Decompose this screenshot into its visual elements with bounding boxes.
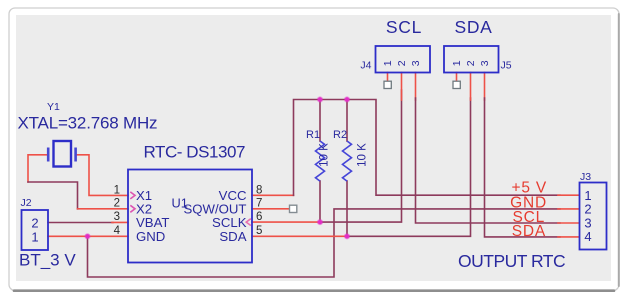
- junction node R2 bottom on SDA: [344, 233, 350, 239]
- bidirectional arrow on SCLK: [246, 219, 251, 226]
- svg-text:J5: J5: [501, 60, 512, 72]
- svg-text:XTAL=32.768 MHz: XTAL=32.768 MHz: [18, 113, 158, 132]
- wire J5 pin1 stub: [456, 73, 458, 82]
- wire pin 7 stub SQW/OUT: [252, 208, 290, 210]
- svg-text:SDA: SDA: [512, 223, 546, 240]
- svg-text:2: 2: [584, 201, 591, 216]
- svg-text:GND: GND: [136, 229, 165, 244]
- wire J5 pin3 stub: [484, 73, 486, 101]
- wire R1 bottom lead: [319, 181, 321, 222]
- crystal right plate: [74, 148, 77, 162]
- svg-text:4: 4: [114, 225, 121, 237]
- svg-text:Y1: Y1: [47, 101, 60, 113]
- wire VBAT net (maroon): [48, 222, 113, 224]
- wire J4 pin3 stub: [415, 73, 417, 101]
- wire pin 3 stub VBAT: [112, 221, 128, 223]
- svg-text:OUTPUT RTC: OUTPUT RTC: [458, 251, 565, 271]
- wire SDA net J5 pin3 to J3 pin4 (maroon): [485, 98, 561, 237]
- wire crystal left plate to X2 (red part): [28, 155, 47, 182]
- input arrow on X2: [130, 205, 135, 212]
- input arrow on X1: [130, 192, 135, 199]
- wire pin 6 stub SCLK: [252, 221, 320, 223]
- svg-text:R2: R2: [333, 129, 347, 141]
- wire J3 pin3 stub SCL: [558, 222, 579, 224]
- svg-text:7: 7: [256, 198, 262, 210]
- crystal X1 body: [54, 141, 72, 167]
- svg-text:J4: J4: [360, 60, 371, 72]
- svg-text:SDA: SDA: [219, 229, 246, 244]
- wire +5V net rail (maroon): [294, 100, 561, 196]
- junction node R2 top on +5V rail: [344, 96, 350, 102]
- junction node R1 bottom on SCL: [317, 219, 323, 225]
- connector J5 body: [444, 46, 499, 73]
- crystal left plate: [47, 148, 50, 162]
- wire J3 pin4 stub SDA: [558, 236, 579, 238]
- wire R2 bottom lead: [346, 181, 348, 236]
- svg-text:BT_3 V: BT_3 V: [19, 251, 76, 270]
- svg-text:SCL: SCL: [386, 17, 422, 37]
- svg-text:1: 1: [382, 60, 394, 66]
- no-connect square on pin 7: [290, 205, 297, 212]
- svg-text:10 K: 10 K: [357, 143, 369, 167]
- wire pin 8 stub VCC: [252, 194, 294, 196]
- wire J3 pin1 stub +5V: [558, 194, 579, 196]
- svg-text:SDA: SDA: [454, 17, 492, 37]
- svg-text:4: 4: [584, 229, 591, 244]
- wire GND loop (maroon): [88, 209, 561, 277]
- svg-text:RTC- DS1307: RTC- DS1307: [144, 143, 246, 162]
- resistor R2: [343, 141, 352, 181]
- svg-text:R1: R1: [306, 129, 320, 141]
- svg-text:3: 3: [584, 215, 591, 230]
- svg-text:6: 6: [256, 211, 262, 223]
- wire crystal left path mid (maroon): [28, 182, 78, 209]
- connector J2 body: [22, 210, 49, 250]
- wire pin 2 stub X2: [78, 208, 129, 210]
- wire SCL net J4 pin3 to J3 pin3 (maroon): [416, 98, 561, 223]
- wire J4 pin1 stub: [387, 73, 389, 82]
- wire pin 5 stub SDA: [252, 235, 347, 237]
- svg-text:2: 2: [396, 60, 408, 66]
- wire crystal right plate to X1: [76, 155, 128, 196]
- wire GND row J2 pin1 to chip pin4: [48, 235, 128, 237]
- wire J3 pin2 stub GND: [558, 208, 579, 210]
- svg-text:SCLK: SCLK: [212, 215, 247, 230]
- op-amp / IC U1 DS1307 body: [128, 170, 252, 263]
- svg-text:8: 8: [256, 184, 262, 196]
- wire SCL net chip to J4 pin2 (maroon): [320, 90, 402, 222]
- svg-text:5: 5: [256, 225, 262, 237]
- svg-text:10 K: 10 K: [319, 143, 331, 167]
- svg-text:3: 3: [410, 60, 422, 66]
- svg-text:1: 1: [114, 184, 120, 196]
- no-connect square on J5 pin 1: [453, 81, 460, 88]
- wire R2 top lead: [346, 100, 348, 142]
- no-connect square on J4 pin 1: [384, 81, 391, 88]
- connector J4 body: [376, 46, 431, 73]
- svg-text:J3: J3: [580, 171, 591, 183]
- junction node R1 top on +5V rail: [317, 96, 323, 102]
- wire R1 top lead: [319, 100, 321, 142]
- wire SDA net chip to J5 pin2 (maroon): [347, 98, 471, 236]
- wire J5 pin2 stub: [470, 73, 472, 101]
- svg-text:2: 2: [114, 198, 120, 210]
- svg-text:2: 2: [465, 60, 477, 66]
- svg-text:2: 2: [31, 216, 38, 231]
- svg-text:J2: J2: [21, 197, 32, 209]
- svg-text:1: 1: [31, 229, 38, 244]
- svg-text:VBAT: VBAT: [136, 215, 169, 230]
- svg-text:3: 3: [479, 60, 491, 66]
- junction node GND at J2 pin1: [84, 233, 90, 239]
- resistor R1: [316, 141, 325, 181]
- svg-text:1: 1: [451, 60, 463, 66]
- wire J4 pin2 stub: [401, 73, 403, 101]
- connector J3 body: [580, 183, 607, 250]
- svg-text:3: 3: [114, 211, 120, 223]
